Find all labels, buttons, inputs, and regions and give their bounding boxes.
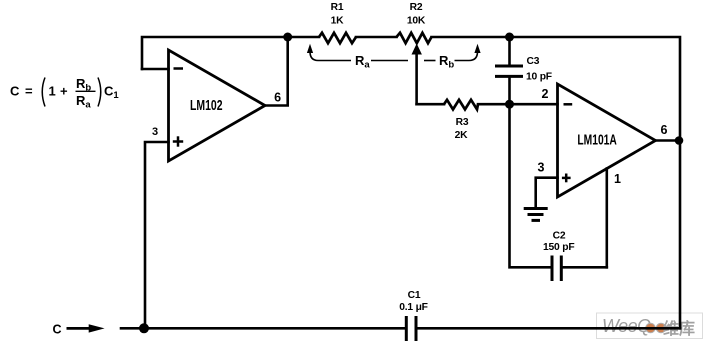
svg-text:WeeQ: WeeQ xyxy=(602,316,651,336)
ground xyxy=(524,209,548,221)
svg-text:C: C xyxy=(52,322,61,336)
svg-text:10 pF: 10 pF xyxy=(526,72,552,83)
wire C3 bottom stub xyxy=(508,78,511,104)
wire R2 wiper down xyxy=(415,52,418,104)
capacitor C3 10 pF xyxy=(495,65,523,68)
wire LM101A output xyxy=(656,139,681,142)
svg-text:C: C xyxy=(10,84,20,99)
svg-text:C1: C1 xyxy=(408,290,421,301)
svg-text:150 pF: 150 pF xyxy=(543,242,574,253)
node junction dot pin2 xyxy=(505,100,514,109)
svg-text:R2: R2 xyxy=(410,2,423,13)
svg-text:+: + xyxy=(60,84,68,99)
LM101A minus sign xyxy=(564,103,573,106)
svg-text:10K: 10K xyxy=(407,16,426,27)
LM102 plus sign xyxy=(173,140,183,143)
wire bottom rail right of C1 xyxy=(418,327,681,330)
svg-text:1: 1 xyxy=(49,84,56,99)
wire top rail between R1 and R2 xyxy=(356,36,397,39)
resistor R3 2K xyxy=(444,100,478,110)
wire R3 to node xyxy=(478,103,510,106)
wire node to LM101A pin2 xyxy=(510,103,558,106)
svg-text:R1: R1 xyxy=(331,2,344,13)
LM101A plus sign xyxy=(562,177,571,180)
svg-text:=: = xyxy=(25,84,33,99)
watermark WeeQoo box xyxy=(597,313,703,339)
R2 wiper arrowhead xyxy=(412,44,422,55)
svg-text:3: 3 xyxy=(152,126,158,138)
wire C2 loop left xyxy=(510,104,551,267)
node junction dot LM102 output xyxy=(283,33,292,42)
wire LM102 output up to top rail xyxy=(265,37,288,106)
svg-text:2K: 2K xyxy=(455,130,469,141)
wire LM102 inverting input stub xyxy=(142,68,169,71)
wire wiper to R3 xyxy=(417,103,444,106)
equation fraction bar xyxy=(76,90,96,92)
node junction dot input xyxy=(139,323,149,333)
svg-text:3: 3 xyxy=(538,161,545,175)
capacitor C2 150 pF xyxy=(551,256,554,282)
capacitor C1 0.1 uF xyxy=(405,316,408,341)
svg-text:6: 6 xyxy=(274,91,281,105)
node Ra annotation xyxy=(310,52,408,61)
wire LM102 non-inverting input down to bottom rail xyxy=(145,142,169,328)
node junction dot C3 top xyxy=(505,33,514,42)
LM102 minus sign xyxy=(174,67,184,70)
wire top rail right segment and right rail xyxy=(432,37,681,328)
equation left paren xyxy=(42,78,45,107)
svg-text:C2: C2 xyxy=(553,230,566,241)
svg-text:1: 1 xyxy=(614,172,621,186)
svg-text:0.1 μF: 0.1 μF xyxy=(399,302,428,313)
equation C = (1 + Rb/Ra)C1 xyxy=(10,76,119,111)
resistor R2 10K (pot) xyxy=(397,33,432,43)
op-amp U1 LM102 xyxy=(169,50,266,161)
wire LM101A pin1 down xyxy=(605,169,608,268)
node junction dot LM101A output xyxy=(675,136,684,145)
node Rb annotation xyxy=(424,52,478,61)
svg-text:LM101A: LM101A xyxy=(577,132,617,148)
equation right paren xyxy=(98,78,101,107)
wire LM101A pin3 stub to ground xyxy=(536,178,558,207)
wire top rail left segment with feedback corner xyxy=(142,37,319,69)
svg-text:C3: C3 xyxy=(527,56,540,67)
svg-text:R3: R3 xyxy=(456,117,469,128)
svg-text:LM102: LM102 xyxy=(190,98,223,114)
svg-text:1K: 1K xyxy=(331,16,345,27)
op-amp U2 LM101A xyxy=(558,84,656,197)
svg-text:2: 2 xyxy=(542,87,549,101)
wire C2 loop right xyxy=(563,266,607,269)
svg-text:6: 6 xyxy=(661,123,668,137)
wire bottom rail left of C1 xyxy=(121,327,405,330)
resistor R1 1K xyxy=(319,33,356,43)
wire C3 top stub xyxy=(508,37,511,65)
